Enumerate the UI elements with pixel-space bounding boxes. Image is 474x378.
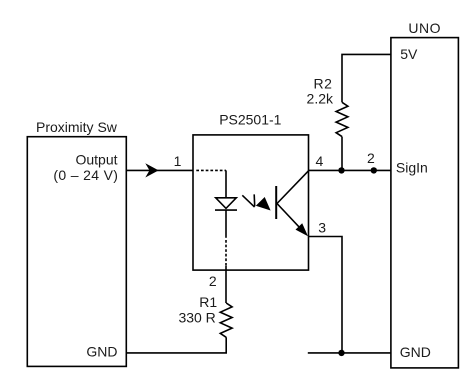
wire LED cathode <box>225 210 227 238</box>
wire GND (prox) to R1 bottom <box>126 337 226 353</box>
svg-text:UNO: UNO <box>408 20 441 36</box>
wire 5V to R2 <box>342 54 391 102</box>
resistor R2 <box>336 102 348 136</box>
junction node ground rail <box>338 350 344 356</box>
svg-text:R2: R2 <box>313 76 332 92</box>
light arrow filled head <box>256 197 271 211</box>
svg-text:PS2501-1: PS2501-1 <box>219 111 281 127</box>
svg-text:4: 4 <box>316 153 324 169</box>
svg-text:3: 3 <box>318 219 326 235</box>
wire cathode dotted (inside opto) <box>225 240 227 267</box>
LED cathode bar <box>215 209 237 211</box>
wire pin 4 to SigIn <box>309 169 391 171</box>
box Proximity Sw <box>27 137 126 367</box>
phototransistor collector <box>277 171 309 204</box>
svg-text:2: 2 <box>367 150 375 166</box>
junction node R2/pin4 <box>338 167 344 173</box>
wire output to pin 1 <box>126 169 193 171</box>
svg-text:SigIn: SigIn <box>396 160 428 176</box>
wire LED anode <box>225 170 227 197</box>
light arrow 1 shaft <box>242 195 254 207</box>
LED triangle <box>216 198 237 209</box>
svg-text:1: 1 <box>174 153 182 169</box>
phototransistor emitter <box>277 204 306 234</box>
junction node SigIn terminal <box>371 167 377 173</box>
svg-text:(0 – 24 V): (0 – 24 V) <box>53 167 118 183</box>
svg-text:GND: GND <box>86 343 117 359</box>
box optocoupler PS2501-1 <box>193 135 309 270</box>
arrowhead on output wire <box>145 163 158 177</box>
wire R2 to SigIn node <box>341 137 343 171</box>
svg-text:R1: R1 <box>199 294 217 310</box>
svg-text:GND: GND <box>400 344 431 360</box>
wire pin 3 down to ground rail <box>309 237 343 353</box>
resistor R1 <box>220 303 232 337</box>
svg-text:Proximity Sw: Proximity Sw <box>36 119 118 135</box>
phototransistor emitter arrowhead <box>296 223 309 236</box>
box UNO <box>391 38 459 368</box>
svg-text:330 R: 330 R <box>178 309 215 325</box>
svg-text:2.2k: 2.2k <box>307 91 334 107</box>
light arrow 2 shaft <box>253 194 256 206</box>
svg-text:2: 2 <box>209 273 217 289</box>
svg-text:5V: 5V <box>400 46 418 62</box>
phototransistor base bar <box>275 186 277 219</box>
wire pin 2 lead to R1 <box>225 266 227 303</box>
wire pin 1 dashed (inside opto) <box>196 169 226 171</box>
svg-text:Output: Output <box>75 152 117 168</box>
wire ground rail right <box>308 352 391 354</box>
